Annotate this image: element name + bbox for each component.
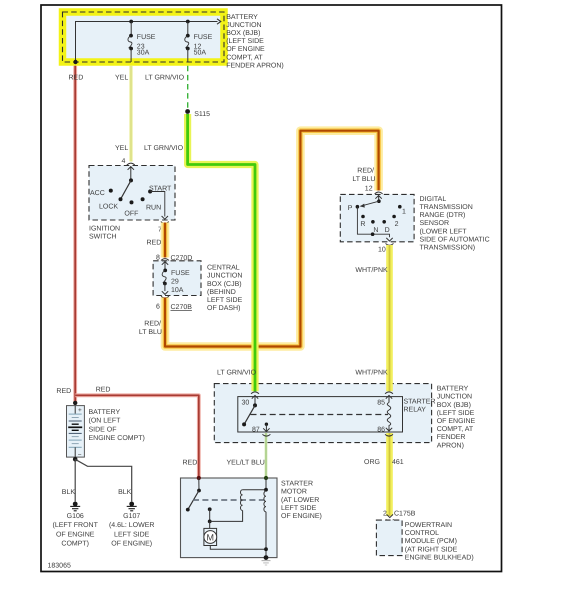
svg-text:C270B: C270B [171, 304, 193, 311]
node starter case ground [264, 555, 269, 560]
connector arrow pin 8 [162, 262, 168, 271]
ignition switch box [89, 166, 175, 221]
DTR contact R [361, 215, 365, 219]
ignition contact RUN [141, 197, 145, 201]
svg-text:RED: RED [183, 460, 198, 467]
connector cup pin 4 [127, 163, 135, 165]
svg-text:ACC: ACC [90, 190, 105, 197]
svg-text:2: 2 [383, 510, 387, 517]
starter coil feed from terminal [243, 478, 266, 490]
svg-text:10: 10 [378, 246, 386, 253]
starter switch contact [208, 507, 212, 511]
svg-text:N: N [373, 227, 378, 234]
svg-text:C175B: C175B [394, 510, 416, 517]
svg-text:RED/: RED/ [357, 167, 374, 175]
svg-text:50A: 50A [194, 49, 207, 56]
starter motor box [181, 478, 278, 558]
DTR internal node [371, 232, 375, 236]
svg-text:LT BLU: LT BLU [352, 176, 375, 183]
starter solenoid feed wire [198, 478, 200, 491]
relay switch pivot [253, 403, 257, 407]
svg-text:10A: 10A [171, 287, 184, 294]
svg-text:RED: RED [96, 386, 111, 393]
node BJB red tap [73, 60, 77, 64]
DTR contact N [371, 220, 375, 224]
svg-text:86: 86 [377, 426, 385, 433]
svg-text:M: M [207, 532, 215, 542]
svg-text:461: 461 [392, 459, 404, 466]
svg-text:YEL: YEL [115, 75, 128, 82]
wire RED BJB to battery [73, 66, 77, 403]
DTR selector arm to P [361, 201, 379, 206]
relay coil [387, 403, 391, 429]
wire ORG 461 relay pin86 to PCM [386, 433, 393, 516]
motor M1 [204, 531, 217, 544]
battery negative stem [74, 447, 76, 459]
svg-text:RED: RED [147, 239, 162, 246]
svg-text:P: P [348, 205, 353, 212]
DTR contact 2 [392, 215, 396, 219]
connector cup pin 8 [161, 259, 169, 261]
starter pull-in coil [241, 490, 243, 511]
DTR contact P [356, 205, 360, 209]
svg-text:YEL/LT BLU: YEL/LT BLU [227, 459, 265, 467]
battery box [67, 406, 85, 458]
DTR contact D [382, 220, 386, 224]
svg-text:FUSE: FUSE [194, 34, 213, 41]
DTR internal wire P to pin 10 [357, 207, 389, 238]
connector arrow pin 6 [162, 291, 168, 294]
starter contact to motor wire [209, 509, 211, 521]
svg-text:29: 29 [171, 279, 179, 286]
starter case ground symbol [262, 561, 271, 565]
ground G106 [70, 502, 80, 511]
fuse 23 30A [128, 20, 133, 62]
connector cup relay pin 85 [385, 392, 393, 394]
node starter motor feed [208, 520, 212, 524]
svg-text:2: 2 [395, 221, 399, 228]
node battery negative [73, 457, 78, 462]
powertrain control module PCM box [376, 520, 402, 556]
node coil junction [264, 488, 268, 492]
starter relay inner box [238, 397, 403, 432]
svg-text:4: 4 [122, 158, 126, 165]
svg-text:WHT/PNK: WHT/PNK [355, 266, 388, 274]
connector cup relay pin 87 [262, 434, 270, 436]
connector cup relay pin 86 [385, 434, 393, 436]
connector arrow relay pin 85 [386, 395, 392, 402]
svg-text:1: 1 [402, 209, 406, 216]
svg-text:YEL: YEL [115, 145, 128, 152]
svg-text:R: R [360, 221, 365, 228]
starter switch arm end [186, 508, 190, 512]
battery plates [68, 414, 82, 447]
connector arrow pin 2 [387, 514, 393, 517]
svg-text:RED/: RED/ [144, 320, 161, 328]
DTR common node [377, 199, 381, 203]
node starter return [264, 547, 268, 551]
motor feed wire [209, 521, 211, 528]
wire LT GRN/VIO dashed fuse12 to S115 [187, 66, 189, 109]
svg-text:IGNITIONSWITCH: IGNITIONSWITCH [89, 225, 120, 240]
svg-text:30: 30 [242, 400, 250, 407]
connector cup pin 10 [386, 243, 394, 245]
svg-text:FUSE: FUSE [137, 34, 156, 41]
svg-text:BLK: BLK [118, 489, 132, 496]
ignition switch common contact [129, 178, 133, 182]
connector arrow pin 4 [128, 167, 134, 181]
wire BLK battery to G107 [75, 459, 132, 501]
svg-text:WHT/PNK: WHT/PNK [355, 368, 388, 376]
connector cup pin 6 [161, 296, 169, 298]
wire YEL fuse23 to ignition [129, 66, 132, 162]
relay switch arm [244, 405, 255, 424]
svg-text:−: − [78, 451, 82, 458]
pull-in coil return wire [210, 511, 243, 522]
svg-text:G106: G106 [67, 513, 84, 520]
battery junction box BJB top dashed border [63, 12, 225, 62]
hold-in coil return wire [265, 512, 267, 558]
svg-text:FUSE: FUSE [171, 270, 190, 277]
svg-text:183065: 183065 [48, 563, 71, 570]
relay pin 87 node [265, 423, 268, 426]
svg-text:LOCK: LOCK [99, 204, 118, 211]
svg-text:S115: S115 [194, 111, 210, 118]
node starter YEL/LT BLU terminal [264, 476, 268, 480]
connector cup relay pin 30 [251, 392, 259, 394]
wire WHT/PNK DTR to relay pin85 [386, 245, 393, 391]
svg-text:D: D [385, 227, 390, 234]
connector arrow relay pin 86 [386, 428, 392, 431]
connector cup pin 2 [386, 519, 394, 521]
node starter RED terminal [197, 476, 201, 480]
svg-text:(4.6L: LOWERLEFT SIDEOF ENGINE: (4.6L: LOWERLEFT SIDEOF ENGINE) [109, 521, 155, 548]
svg-text:87: 87 [252, 426, 260, 433]
DTR selector arrowhead at P [360, 204, 365, 208]
BJB bus arrow [217, 19, 221, 24]
BJB bus wire [76, 22, 218, 63]
motor M1 frame [204, 528, 217, 545]
starter hold-in coil [264, 491, 266, 512]
connector cup pin 12 [375, 192, 383, 194]
motor return wire [210, 546, 266, 550]
ignition contact START [148, 190, 152, 194]
svg-text:RED: RED [56, 388, 71, 395]
ground G107 [127, 502, 137, 511]
svg-text:6: 6 [156, 304, 160, 311]
ignition switch LOCK pivot contact [119, 197, 123, 201]
battery positive stem [74, 406, 76, 414]
starter switch arm [188, 491, 199, 510]
wire LT GRN/VIO highlighted S115 to relay pin30 [188, 114, 255, 391]
connector arrow pin 7 [162, 216, 168, 219]
splice S115 [185, 109, 190, 114]
svg-text:LT GRN/VIO: LT GRN/VIO [145, 74, 185, 82]
wire BLK battery to G106 [74, 459, 76, 501]
svg-text:30A: 30A [137, 49, 150, 56]
starter relay outer box [214, 384, 431, 443]
svg-text:LT GRN/VIO: LT GRN/VIO [144, 144, 184, 152]
ignition contact OFF [130, 200, 134, 204]
svg-text:RED: RED [69, 75, 84, 82]
connector arrow pin 12 [375, 196, 381, 202]
svg-text:LT GRN/VIO: LT GRN/VIO [217, 368, 257, 376]
svg-text:+: + [78, 407, 82, 414]
svg-text:RUN: RUN [146, 204, 161, 211]
connector arrow relay pin 30 [252, 395, 258, 405]
svg-text:G107: G107 [123, 513, 140, 520]
wire RED/LT BLU highlighted CJB to DTR [165, 131, 379, 347]
svg-text:12: 12 [365, 186, 373, 193]
svg-text:LT BLU: LT BLU [139, 329, 162, 336]
fuse 29 10A [162, 269, 167, 292]
DTR sensor box [340, 194, 414, 241]
page frame [41, 5, 502, 572]
wire YEL/LT BLU relay pin87 to starter [265, 433, 268, 478]
connector cup pin 7 [161, 222, 169, 224]
svg-text:85: 85 [377, 400, 385, 407]
connector arrow pin 10 [386, 238, 392, 241]
svg-text:ORG: ORG [364, 459, 380, 466]
svg-text:OFF: OFF [124, 211, 138, 218]
ignition internal wire START to pin7 [150, 192, 165, 217]
ignition switch arm [121, 180, 132, 199]
wire RED pin7 to C270D highlighted [161, 223, 170, 258]
node battery positive [73, 401, 77, 405]
relay switch contact [242, 422, 246, 426]
relay actuating dashed link [251, 414, 389, 416]
connector arrow relay pin 87 [263, 424, 269, 431]
central junction box CJB [153, 261, 201, 296]
fuse 12 50A [185, 20, 190, 62]
starter switch pivot [197, 489, 201, 493]
starter solenoid dashed link [193, 499, 265, 501]
svg-text:BLK: BLK [62, 489, 76, 496]
DTR contact 1 [398, 205, 402, 209]
battery junction box BJB top highlight [63, 12, 225, 62]
wire RED battery to starter motor [75, 395, 199, 477]
ignition contact ACC [109, 189, 113, 193]
